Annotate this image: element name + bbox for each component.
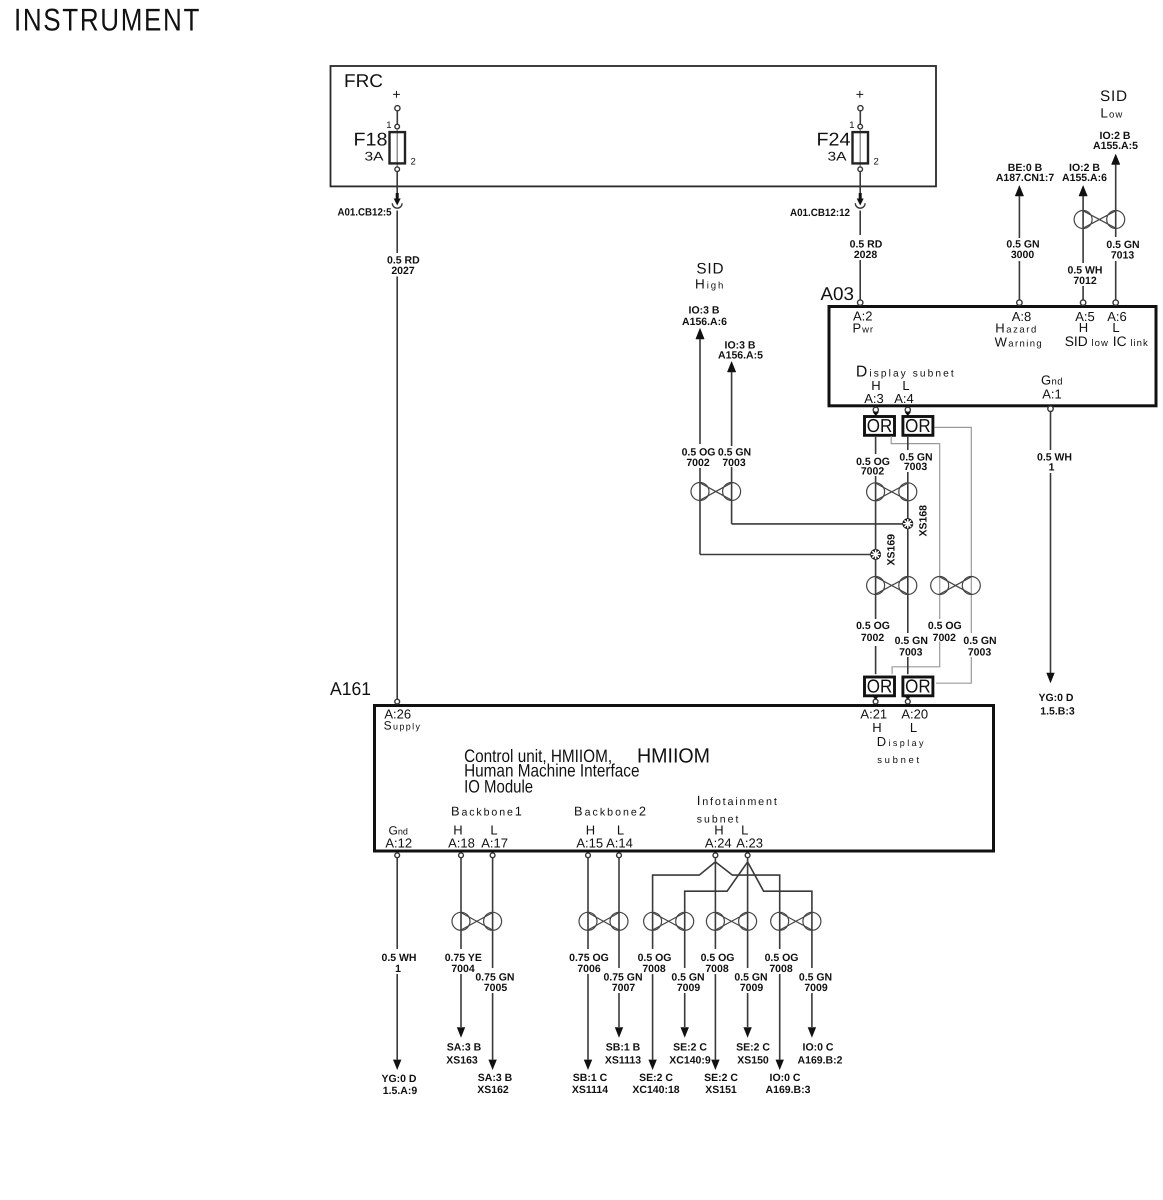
svg-text:7002: 7002 xyxy=(686,457,710,469)
A161 backbone1 pins xyxy=(448,804,524,851)
svg-text:XS162: XS162 xyxy=(477,1084,509,1096)
svg-text:XS151: XS151 xyxy=(705,1084,737,1096)
svg-text:OR: OR xyxy=(905,415,931,436)
fuse F18 xyxy=(354,86,416,172)
svg-text:INSTRUMENT: INSTRUMENT xyxy=(14,2,201,38)
svg-text:7002: 7002 xyxy=(861,466,885,478)
svg-text:1.5.B:3: 1.5.B:3 xyxy=(1040,706,1075,718)
svg-text:OR: OR xyxy=(905,675,931,696)
svg-text:7003: 7003 xyxy=(904,461,928,473)
A161 pin A:26 Supply xyxy=(384,699,422,732)
svg-text:A161: A161 xyxy=(330,678,371,699)
wire label 0.5 WH 7012 xyxy=(1067,265,1102,288)
svg-text:SE:2 C: SE:2 C xyxy=(704,1072,738,1084)
wire OR-right branch via right edge xyxy=(934,427,971,683)
A03 pin Gnd A:1 xyxy=(1041,372,1063,411)
wire labels above bottom OR gates xyxy=(856,620,997,659)
svg-text:7009: 7009 xyxy=(677,982,701,994)
svg-text:7009: 7009 xyxy=(740,982,764,994)
svg-text:A187.CN1:7: A187.CN1:7 xyxy=(996,172,1055,184)
svg-text:A:12: A:12 xyxy=(385,835,412,850)
svg-text:SID: SID xyxy=(1100,88,1128,105)
svg-text:SID: SID xyxy=(696,260,724,277)
svg-text:7008: 7008 xyxy=(642,963,666,975)
A03 display subnet pins A:3 H / A:4 L xyxy=(856,364,956,407)
svg-text:0.5 OG: 0.5 OG xyxy=(928,620,962,632)
twisted pair SID low xyxy=(1074,211,1125,229)
svg-text:A01.CB12:12: A01.CB12:12 xyxy=(790,207,850,219)
svg-text:IO:0 C: IO:0 C xyxy=(770,1072,801,1084)
svg-text:A155.A:5: A155.A:5 xyxy=(1093,140,1138,152)
svg-text:7002: 7002 xyxy=(861,632,885,644)
svg-text:A:17: A:17 xyxy=(481,835,508,850)
wire infotainment OG 7008 #2 xyxy=(701,952,739,1096)
wire infotainment GN 7009 #1 xyxy=(669,971,711,1066)
wire SID high H (0.5 OG 7002) xyxy=(696,328,871,554)
svg-text:SB:1 C: SB:1 C xyxy=(573,1072,608,1084)
svg-text:7003: 7003 xyxy=(722,457,746,469)
twisted pair infotainment 1 xyxy=(644,912,694,930)
wire infotainment OG 7008 #1 xyxy=(632,952,679,1096)
svg-text:FRC: FRC xyxy=(344,70,383,91)
svg-text:2028: 2028 xyxy=(854,249,878,261)
svg-text:1: 1 xyxy=(395,963,401,975)
wire backbone1 H (0.75 YE 7004) xyxy=(445,858,482,1067)
ground node YG:0 D 1.5.B:3 xyxy=(1038,692,1074,718)
A03 pins A:5 H / A:6 L, SID low IC link xyxy=(1065,300,1149,349)
twisted pair infotainment 2 xyxy=(706,912,756,930)
wire label 0.5 RD 2028 xyxy=(850,239,883,262)
svg-text:H: H xyxy=(1079,320,1088,335)
svg-text:3A: 3A xyxy=(828,150,848,164)
svg-text:1: 1 xyxy=(1049,462,1055,474)
svg-text:A156.A:5: A156.A:5 xyxy=(718,350,763,362)
twisted pair backbone2 xyxy=(579,912,628,930)
svg-text:+: + xyxy=(856,86,864,102)
svg-text:YG:0 D: YG:0 D xyxy=(1038,692,1073,704)
svg-text:2: 2 xyxy=(411,157,416,168)
svg-text:F24: F24 xyxy=(817,129,851,150)
svg-text:XS163: XS163 xyxy=(446,1054,478,1066)
svg-text:A03: A03 xyxy=(821,283,855,304)
wire F24 to A03 pwr xyxy=(859,172,861,301)
ECU A03 box xyxy=(821,283,1157,406)
wire SID low H (0.5 WH 7012) xyxy=(1079,186,1087,300)
twisted pair display subnet upper xyxy=(867,483,917,501)
svg-text:7003: 7003 xyxy=(899,647,923,659)
svg-text:0.5 WH: 0.5 WH xyxy=(1037,452,1072,464)
svg-text:XS150: XS150 xyxy=(737,1054,769,1066)
svg-text:A169.B:3: A169.B:3 xyxy=(766,1084,811,1096)
svg-text:SE:2 C: SE:2 C xyxy=(639,1072,673,1084)
wire backbone2 H (0.75 OG 7006) xyxy=(569,858,609,1096)
svg-text:7002: 7002 xyxy=(933,632,957,644)
wire label 0.5 GN 3000 xyxy=(1006,239,1039,262)
svg-text:SE:2 C: SE:2 C xyxy=(673,1042,707,1054)
svg-text:2027: 2027 xyxy=(391,265,415,277)
svg-text:SA:3 B: SA:3 B xyxy=(478,1072,513,1084)
wire A03 Gnd (0.5 WH 1) xyxy=(1046,412,1054,684)
splice XS168 xyxy=(902,505,929,537)
node IO:3 B A156.A:5 xyxy=(718,339,763,361)
A161 description text xyxy=(464,745,710,797)
svg-text:Backbone1: Backbone1 xyxy=(451,804,524,819)
svg-text:H: H xyxy=(872,720,881,735)
svg-text:A:1: A:1 xyxy=(1042,387,1062,402)
svg-text:A155.A:6: A155.A:6 xyxy=(1062,172,1107,184)
wire label 0.5 GN 7013 xyxy=(1106,239,1139,261)
infotainment fanout from A:24 xyxy=(653,858,780,949)
svg-text:A169.B:2: A169.B:2 xyxy=(798,1054,843,1066)
wire F18 to A161 supply xyxy=(396,172,398,700)
node IO:2 B A155.A:6 xyxy=(1062,162,1107,184)
splice XS169 xyxy=(870,534,897,566)
svg-text:SE:2 C: SE:2 C xyxy=(736,1042,770,1054)
svg-text:XC140:18: XC140:18 xyxy=(632,1084,679,1096)
ECU A161 box xyxy=(330,678,994,851)
wire backbone2 L (0.75 GN 7007) xyxy=(603,858,642,1067)
node BE:0 B A187.CN1:7 xyxy=(996,162,1055,184)
wire infotainment GN 7009 #2 xyxy=(734,971,770,1066)
svg-text:7004: 7004 xyxy=(451,963,475,975)
svg-text:3000: 3000 xyxy=(1011,249,1035,261)
twisted pair backbone1 xyxy=(452,912,502,930)
wire Gnd A:12 (0.5 WH 1) xyxy=(381,858,417,1097)
svg-text:OR: OR xyxy=(867,415,893,436)
svg-text:Backbone2: Backbone2 xyxy=(574,804,648,819)
svg-text:1.5.A:9: 1.5.A:9 xyxy=(383,1085,418,1097)
wire OR-left branch to right pair xyxy=(891,436,940,674)
svg-text:A156.A:6: A156.A:6 xyxy=(682,316,727,328)
svg-text:A:14: A:14 xyxy=(606,835,633,850)
svg-text:IO Module: IO Module xyxy=(464,777,533,797)
OR gate top-right xyxy=(903,407,933,436)
svg-text:7012: 7012 xyxy=(1073,275,1097,287)
svg-text:F18: F18 xyxy=(354,129,388,150)
A161 pins A:21 H / A:20 L display subnet xyxy=(860,706,928,766)
SID Low heading xyxy=(1100,88,1128,121)
A03 pin A:8 Hazard Warning xyxy=(995,300,1043,349)
SID High heading xyxy=(695,260,725,291)
svg-text:XS1114: XS1114 xyxy=(572,1084,608,1096)
wire labels 0.5 OG 7002 / 0.5 GN 7003 (SID high) xyxy=(680,446,752,469)
svg-text:IO:3 B: IO:3 B xyxy=(689,304,720,316)
title INSTRUMENT xyxy=(14,2,201,38)
svg-text:A:4: A:4 xyxy=(894,391,914,406)
OR gate bottom-right xyxy=(903,675,933,704)
svg-text:7007: 7007 xyxy=(612,982,636,994)
connector A01.CB12:5 xyxy=(338,187,403,219)
svg-text:A:24: A:24 xyxy=(705,835,732,850)
svg-text:7009: 7009 xyxy=(804,982,828,994)
svg-text:A:3: A:3 xyxy=(864,391,884,406)
svg-text:XC140:9: XC140:9 xyxy=(669,1054,711,1066)
svg-text:7005: 7005 xyxy=(484,982,508,994)
svg-text:2: 2 xyxy=(874,157,879,168)
svg-text:A:15: A:15 xyxy=(576,835,603,850)
twisted pair SID high xyxy=(691,483,741,501)
svg-text:A01.CB12:5: A01.CB12:5 xyxy=(338,207,392,219)
OR gate top-left xyxy=(865,407,895,436)
svg-text:Supply: Supply xyxy=(384,719,422,733)
svg-text:OR: OR xyxy=(867,675,893,696)
svg-text:7008: 7008 xyxy=(705,963,729,975)
svg-text:+: + xyxy=(392,86,400,102)
svg-text:0.5 GN: 0.5 GN xyxy=(895,635,928,647)
connector A01.CB12:12 xyxy=(790,187,865,219)
svg-text:HMIIOM: HMIIOM xyxy=(637,745,710,768)
svg-text:A:8: A:8 xyxy=(1012,309,1032,324)
svg-text:subnet: subnet xyxy=(877,755,922,766)
svg-text:L: L xyxy=(910,720,917,735)
svg-text:7013: 7013 xyxy=(1111,249,1135,261)
svg-text:A:23: A:23 xyxy=(736,835,763,850)
A161 bottom pin circles xyxy=(395,853,750,858)
svg-text:0.5 OG: 0.5 OG xyxy=(856,620,890,632)
wire SID high L (0.5 GN 7003) xyxy=(727,362,903,524)
wire labels 0.5 OG 7002 / 0.5 GN 7003 (below top OR) xyxy=(856,452,933,478)
svg-text:7006: 7006 xyxy=(577,963,601,975)
svg-text:XS1113: XS1113 xyxy=(605,1054,641,1066)
A161 backbone2 pins xyxy=(574,804,648,851)
infotainment fanout from A:23 xyxy=(685,858,812,968)
twisted pair infotainment 3 xyxy=(771,912,821,930)
wire label 0.5 RD 2027 xyxy=(387,255,420,278)
svg-text:3A: 3A xyxy=(365,150,385,164)
svg-text:XS169: XS169 xyxy=(886,534,898,566)
wire OR-left output 0.5 OG 7002 xyxy=(875,436,877,674)
svg-text:SA:3 B: SA:3 B xyxy=(447,1042,482,1054)
A161 pin Gnd A:12 xyxy=(385,823,412,850)
svg-text:7003: 7003 xyxy=(968,647,992,659)
wire label 0.5 WH 1 xyxy=(1037,452,1072,474)
fuse F24 xyxy=(817,86,879,172)
svg-text:Infotainment: Infotainment xyxy=(697,793,779,808)
OR gate bottom-left xyxy=(865,675,895,704)
wire OR-right output 0.5 GN 7003 xyxy=(907,436,909,674)
A03 pin A:2 Pwr xyxy=(853,300,875,336)
svg-text:L: L xyxy=(1112,320,1119,335)
node IO:2 B A155.A:5 xyxy=(1093,130,1138,152)
svg-text:SB:1 B: SB:1 B xyxy=(606,1042,641,1054)
svg-text:7008: 7008 xyxy=(769,963,793,975)
twisted pair display subnet lower-right xyxy=(931,577,981,595)
twisted pair display subnet lower-left xyxy=(867,577,917,595)
wire SID low L (0.5 GN 7013) xyxy=(1112,154,1120,300)
svg-text:0.5 GN: 0.5 GN xyxy=(963,635,996,647)
svg-text:A:18: A:18 xyxy=(448,835,475,850)
A161 infotainment subnet pins xyxy=(697,793,779,850)
wire backbone1 L (0.75 GN 7005) xyxy=(475,858,514,1096)
svg-text:IO:0 C: IO:0 C xyxy=(803,1042,834,1054)
node IO:3 B A156.A:6 xyxy=(682,304,727,328)
wire infotainment GN 7009 #3 xyxy=(798,971,843,1066)
wire hazard (0.5 GN 3000) xyxy=(1015,186,1023,300)
svg-text:XS168: XS168 xyxy=(918,505,930,537)
wire infotainment OG 7008 #3 xyxy=(765,952,811,1096)
svg-text:YG:0 D: YG:0 D xyxy=(381,1073,416,1085)
FRC box xyxy=(331,66,937,186)
